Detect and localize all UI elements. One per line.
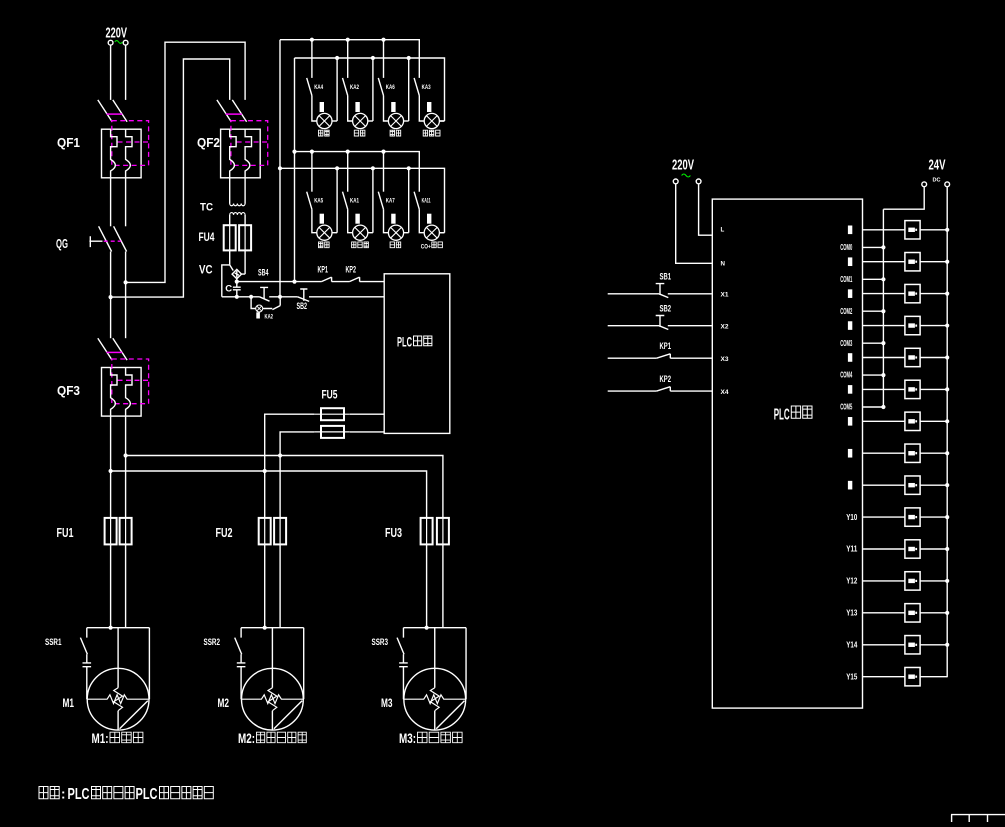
junction on M3 top line xyxy=(425,626,429,630)
junction row Y13 on 24V bus xyxy=(945,643,949,647)
relay KA7 inner mark xyxy=(908,451,915,455)
contact KP1 (left circuit) xyxy=(321,277,349,282)
svg-text:M3:: M3: xyxy=(399,731,416,746)
svg-text:KP2: KP2 xyxy=(660,374,672,385)
small mark above lamp KA6 xyxy=(391,102,395,112)
svg-text:KA7: KA7 xyxy=(386,199,395,205)
wire lamp KA3 to right riser xyxy=(439,120,444,122)
svg-text:QF2: QF2 xyxy=(197,135,220,150)
switch QG handle xyxy=(89,236,102,247)
relay KA5 box xyxy=(905,380,920,398)
svg-text:COM0: COM0 xyxy=(840,243,852,252)
PLC output row Y0 wire to relay xyxy=(863,229,948,231)
motor M3 middle feed wire xyxy=(434,628,436,730)
wire contact to lamp KA3 xyxy=(419,96,424,122)
PLC output row Y6 wire to relay xyxy=(863,420,948,422)
junction FU5/FU2-left on lower bus xyxy=(263,469,267,473)
junction row Y2 on 24V bus xyxy=(945,292,949,296)
relay KA11 inner mark xyxy=(908,579,915,583)
breaker QF3 contact blades xyxy=(98,338,127,360)
wire QF3 to FU1 pole2 xyxy=(125,416,127,518)
motor M2 vertical zigzag xyxy=(268,688,277,711)
PLC output pin mark row 8 xyxy=(848,481,852,490)
junction on M2 top line xyxy=(263,626,267,630)
note text bottom left xyxy=(39,787,59,799)
fuse FU3 element 1 xyxy=(421,518,433,545)
indicator lamp KA2 xyxy=(353,113,368,128)
pushbutton SB1 line (right section) xyxy=(608,293,713,295)
svg-text:SB2: SB2 xyxy=(297,301,308,311)
PLC COM5 wire to COM bus xyxy=(863,406,884,408)
svg-text:DC: DC xyxy=(933,178,941,184)
svg-text:Y11: Y11 xyxy=(846,545,858,554)
junction row Y6 on 24V bus xyxy=(945,419,949,423)
svg-text:PLC: PLC xyxy=(774,406,790,423)
wire fuse to M1 right xyxy=(125,544,127,627)
motor M1 vertical zigzag xyxy=(114,688,123,711)
junction row Y4 on 24V bus xyxy=(945,355,949,359)
motor M1 top line xyxy=(87,627,150,629)
breaker QF2 magenta link line xyxy=(226,113,242,115)
svg-text:KA5: KA5 xyxy=(314,199,323,205)
junction row Y12 on 24V bus xyxy=(945,611,949,615)
lamp branch contact wire KA1 xyxy=(347,152,349,192)
junction row Y9 on 24V bus xyxy=(945,515,949,519)
svg-text:KA6: KA6 xyxy=(386,85,395,91)
relay KA6 box xyxy=(905,412,920,430)
breaker QF3 magenta dashed box xyxy=(112,359,149,404)
svg-text:KA2: KA2 xyxy=(350,85,359,91)
wire TC secondary to FU4 xyxy=(230,215,245,225)
lamp row 1 lamp bus xyxy=(295,58,445,121)
breaker QF3 body box xyxy=(102,368,142,417)
svg-text:QF1: QF1 xyxy=(57,135,80,150)
svg-text:KP1: KP1 xyxy=(318,265,329,275)
relay KA2 box xyxy=(905,284,920,302)
svg-text:24V: 24V xyxy=(929,157,946,173)
fuse FU5 element 1 wires xyxy=(265,414,384,471)
pushbutton SB2 line (right section) xyxy=(608,325,713,327)
small mark above lamp KA3 xyxy=(427,102,431,112)
lamp caption row1 branch 4 xyxy=(423,130,440,136)
feeder vertical B (row buses to upper control line) xyxy=(294,58,296,282)
relay KA13 box xyxy=(905,636,920,654)
rectifier VC diamond xyxy=(232,269,241,278)
relay KA13 inner mark xyxy=(908,643,915,647)
svg-text:X1: X1 xyxy=(721,292,730,299)
wire lamp KA2 to right riser xyxy=(368,120,373,122)
svg-text:KA4: KA4 xyxy=(314,85,323,91)
wire QF1 to QG pole1 xyxy=(110,178,112,227)
svg-text:C: C xyxy=(225,284,232,295)
svg-text:COM5: COM5 xyxy=(840,403,852,412)
lamp branch contact wire KA5 xyxy=(311,152,313,192)
svg-text:PLC: PLC xyxy=(397,333,412,349)
motor M3 circle xyxy=(404,668,466,730)
fuse FU2 element 1 xyxy=(259,518,271,545)
motor M1 right wire xyxy=(148,628,150,700)
contact KA3 blade xyxy=(414,78,419,96)
motor M2 diameter line with resistor zigzag xyxy=(241,695,304,704)
indicator small mark xyxy=(256,312,260,318)
PLC output row Y12 wire to relay xyxy=(863,612,948,614)
svg-text:M1: M1 xyxy=(63,696,75,710)
wire fuse to M2 left xyxy=(264,544,266,627)
fuse FU5 element 2 wires xyxy=(280,432,384,456)
junction A on lower control line xyxy=(278,295,282,299)
contact SSR1 capacitor bars xyxy=(83,654,92,699)
lamp caption row2 branch 1 xyxy=(319,242,330,248)
svg-text:PLC: PLC xyxy=(136,786,158,803)
wire lamp KA5 to right riser xyxy=(332,232,337,234)
AC tilde mark (left 220V) xyxy=(115,41,123,44)
relay KA5 inner mark xyxy=(908,387,915,391)
svg-text:SB2: SB2 xyxy=(660,303,672,314)
motor M3 top line xyxy=(403,627,466,629)
svg-text:Y13: Y13 xyxy=(846,609,858,618)
power bus line lower (to FU2/FU3 left) xyxy=(111,471,427,518)
PLC output row Y8 wire to relay xyxy=(863,484,948,486)
lamp row 2 contact bus xyxy=(295,152,420,192)
PLC main unit box (left) xyxy=(384,274,450,434)
svg-text:SSR3: SSR3 xyxy=(372,637,389,647)
svg-text:FU5: FU5 xyxy=(322,390,338,402)
junction row Y0 on 24V bus xyxy=(945,228,949,232)
PLC output row Y7 wire to relay xyxy=(863,452,948,454)
PLC output pin mark row 0 xyxy=(848,226,852,235)
PLC output pin mark row 4 xyxy=(848,353,852,362)
wire 220V-L to PLC N pin xyxy=(676,184,713,263)
indicator lamp KA7 xyxy=(388,225,403,240)
svg-text:KA3: KA3 xyxy=(422,85,431,91)
PLC COM3 wire to COM bus xyxy=(863,342,884,344)
capacitor C body xyxy=(233,282,241,297)
fuse FU1 element 1 xyxy=(105,518,117,545)
relay KA10 inner mark xyxy=(908,547,915,551)
svg-text:KA1: KA1 xyxy=(350,199,359,205)
relay KA8 box xyxy=(905,476,920,494)
contact KA2 blade xyxy=(343,78,348,96)
breaker QF2 pole 1 thermal-magnetic element xyxy=(230,129,236,178)
relay KA12 box xyxy=(905,604,920,622)
contact SSR2 capacitor bars xyxy=(237,654,246,699)
PLC output row Y14 wire to relay xyxy=(863,676,948,678)
svg-text:CO+: CO+ xyxy=(421,244,431,251)
pushbutton SB1 plunger xyxy=(656,284,665,295)
fuse FU1 element 2 xyxy=(120,518,132,545)
PLC output pin mark row 7 xyxy=(848,449,852,458)
junction row Y7 on 24V bus xyxy=(945,451,949,455)
wire fuse to M3 left xyxy=(426,544,428,627)
PLC output pin mark row 5 xyxy=(848,385,852,394)
breaker QF2 body box xyxy=(221,129,261,178)
wire fuse to M1 left xyxy=(110,544,112,627)
relay KA3 inner mark xyxy=(908,323,915,327)
wire feeder pole2 to QF2 (outer loop) xyxy=(126,42,246,282)
svg-text:KA2: KA2 xyxy=(265,315,274,321)
wire contact to lamp KA4 xyxy=(312,96,317,122)
junction FU5/FU2-right on upper bus xyxy=(278,453,282,457)
motor M2 pump diagonal xyxy=(274,701,302,729)
switch QG magenta dashed link xyxy=(104,240,122,242)
pushbutton SB4 plunger xyxy=(260,287,268,298)
breaker QF2 magenta dashed mid line xyxy=(237,141,268,143)
junction A on row2 lamp bus xyxy=(278,166,282,170)
PLC COM1 wire to COM bus xyxy=(863,278,884,280)
lamp caption row1 branch 2 xyxy=(354,130,365,136)
lamp caption row1 branch 1 xyxy=(319,130,330,136)
title block table corner xyxy=(951,815,1005,822)
wire QF3 to FU1 pole1 xyxy=(110,416,112,518)
svg-text:FU4: FU4 xyxy=(199,232,215,244)
wire feeder pole1 to QF2 (inner loop) xyxy=(111,59,230,297)
pushbutton SB2 plunger (left circuit) xyxy=(300,289,307,301)
svg-text:M2: M2 xyxy=(218,696,230,710)
motor M3 diameter line with resistor zigzag xyxy=(403,695,466,704)
contact SSR1 blade xyxy=(80,628,87,655)
wire QF2 to TC primary xyxy=(230,178,245,204)
relay KA4 box xyxy=(905,348,920,366)
24V-R bus vertical xyxy=(946,187,948,678)
switch QG blades xyxy=(99,226,127,251)
wire 220V to QF1 pole1 xyxy=(110,45,112,100)
relay KA2 inner mark xyxy=(908,291,915,295)
motor M3 pump diagonal xyxy=(436,701,464,729)
svg-text:FU3: FU3 xyxy=(385,525,402,540)
relay KA7 box xyxy=(905,444,920,462)
PLC main unit box (right) xyxy=(712,199,862,708)
motor M1 diameter line with resistor zigzag xyxy=(87,695,150,704)
small mark above lamp KA11 xyxy=(427,214,431,224)
contact KP1 blade xyxy=(657,354,671,358)
contact SSR2 blade xyxy=(235,628,242,655)
wire lamp KA7 to right riser xyxy=(404,232,409,234)
pushbutton SB2 blade xyxy=(659,326,668,330)
PLC output row Y5 wire to relay xyxy=(863,388,948,390)
wire 24V-L to COM bus xyxy=(883,187,924,210)
svg-text:Y15: Y15 xyxy=(846,672,858,681)
indicator lamp KA11 xyxy=(424,225,439,240)
lamp row 2 lamp bus xyxy=(280,168,445,232)
wire contact to lamp KA5 xyxy=(312,209,317,232)
svg-text:Y12: Y12 xyxy=(846,577,858,586)
relay KA6 inner mark xyxy=(908,419,915,423)
wire fuse to M3 right xyxy=(442,544,444,627)
small mark above lamp KA5 xyxy=(320,214,324,224)
contact KA11 blade xyxy=(414,192,419,210)
contact SSR3 blade xyxy=(397,628,404,655)
lamp branch contact wire KA2 xyxy=(347,40,349,78)
breaker QF3 magenta link line xyxy=(107,351,123,353)
lamp branch contact wire KA4 xyxy=(311,40,313,78)
indicator lamp KA4 xyxy=(317,113,332,128)
PLC COM0 wire to COM bus xyxy=(863,246,884,248)
lamp caption row1 branch 3 xyxy=(390,130,401,136)
svg-text:FU2: FU2 xyxy=(216,525,233,540)
svg-text:VC: VC xyxy=(199,265,213,277)
PLC output pin mark row 2 xyxy=(848,289,852,298)
relay KA10 box xyxy=(905,540,920,558)
motor M3 right wire xyxy=(465,628,467,700)
PLC output row Y1 wire to relay xyxy=(863,261,948,263)
wire contact to lamp KA7 xyxy=(384,209,389,232)
terminal circle R (24V) xyxy=(945,182,950,187)
relay KA14 inner mark xyxy=(908,674,915,678)
COM bus vertical xyxy=(882,209,884,407)
breaker QF1 pole 2 thermal-magnetic element xyxy=(126,129,132,178)
PLC output pin mark row 3 xyxy=(848,321,852,330)
contact KP1 line (right section) xyxy=(608,357,713,359)
wire QF1 to QG pole2 xyxy=(125,178,127,227)
terminal circle R (left 220V) xyxy=(123,40,128,45)
svg-text:SB1: SB1 xyxy=(660,272,672,283)
breaker QF3 pole 1 thermal-magnetic element xyxy=(111,368,117,417)
breaker QF2 pole 2 thermal-magnetic element xyxy=(245,129,251,178)
indicator lamp branch wire xyxy=(251,297,256,309)
svg-text:FU1: FU1 xyxy=(57,525,74,540)
wire QG to QF3 pole1 xyxy=(110,252,112,339)
small mark above lamp KA4 xyxy=(320,102,324,112)
junction row Y10 on 24V bus xyxy=(945,547,949,551)
junction C- on lower control line xyxy=(235,295,239,299)
relay KA0 inner mark xyxy=(908,228,915,232)
PLC output row Y4 wire to relay xyxy=(863,357,948,359)
feeder vertical A (row buses to lower control line) xyxy=(279,40,281,297)
svg-text:SSR1: SSR1 xyxy=(45,637,62,647)
lamp caption row2 branch 3 xyxy=(390,242,401,248)
svg-text:SSR2: SSR2 xyxy=(204,637,221,647)
motor M1 middle feed wire xyxy=(117,628,119,730)
wire QG to QF3 pole2 xyxy=(125,252,127,339)
PLC output pin mark row 1 xyxy=(848,257,852,266)
relay KA3 box xyxy=(905,316,920,334)
fuse FU4 element 2 xyxy=(239,225,251,250)
svg-text:Y10: Y10 xyxy=(846,513,858,522)
wire contact to lamp KA11 xyxy=(419,209,424,232)
indicator lamp HL xyxy=(256,305,263,312)
breaker QF1 magenta link line xyxy=(107,113,123,115)
breaker QF3 pole 2 thermal-magnetic element xyxy=(126,368,132,417)
wire contact to lamp KA1 xyxy=(348,209,353,232)
fuse FU5 element 1 xyxy=(321,408,344,420)
pushbutton SB1 blade xyxy=(659,294,668,298)
indicator lamp KA1 xyxy=(353,225,368,240)
breaker QF2 magenta dashed box xyxy=(231,121,268,166)
svg-text:N: N xyxy=(721,261,726,268)
motor M1 pump diagonal xyxy=(120,701,148,729)
svg-text:COM3: COM3 xyxy=(840,339,852,348)
PLC output row Y11 wire to relay xyxy=(863,580,948,582)
svg-text:220V: 220V xyxy=(106,26,128,42)
transformer TC primary winding xyxy=(230,204,245,206)
contact KA7 blade xyxy=(378,192,383,210)
svg-text::: : xyxy=(61,787,66,802)
svg-text:X2: X2 xyxy=(721,324,730,331)
fuse FU2 element 2 xyxy=(274,518,286,545)
svg-text:Y14: Y14 xyxy=(846,640,858,649)
terminal circle R (right 220V) xyxy=(696,179,701,184)
small mark above lamp KA1 xyxy=(355,214,359,224)
junction QG pole1 to QF2 feeder xyxy=(109,295,113,299)
breaker QF1 magenta dashed box xyxy=(112,121,149,166)
relay KA9 box xyxy=(905,508,920,526)
contact SSR3 capacitor bars xyxy=(399,654,408,699)
indicator lamp KA5 xyxy=(317,225,332,240)
wire lamp KA11 to right riser xyxy=(439,232,444,234)
svg-text:M2:: M2: xyxy=(238,731,255,746)
svg-text:M1:: M1: xyxy=(92,731,109,746)
svg-text:KA11: KA11 xyxy=(422,199,431,205)
junction vertical-B on upper control line xyxy=(292,280,296,284)
contact KP2 line (right section) xyxy=(608,390,713,392)
svg-text:QF3: QF3 xyxy=(57,383,80,398)
junction row Y5 on 24V bus xyxy=(945,387,949,391)
svg-text:TC: TC xyxy=(200,202,213,214)
motor M2 top line xyxy=(241,627,304,629)
PLC output row Y10 wire to relay xyxy=(863,548,948,550)
motor M2 right wire xyxy=(303,628,305,700)
power bus line upper (to FU2/FU3 right) xyxy=(126,456,443,518)
small mark above lamp KA7 xyxy=(391,214,395,224)
wire FU4 to VC xyxy=(230,250,245,274)
contact KA5 blade xyxy=(307,192,312,210)
contact KA1 blade xyxy=(343,192,348,210)
PLC output row Y9 wire to relay xyxy=(863,516,948,518)
svg-text:X4: X4 xyxy=(721,389,730,396)
PLC output row Y13 wire to relay xyxy=(863,644,948,646)
svg-text:QG: QG xyxy=(56,236,68,251)
transformer TC secondary winding xyxy=(230,213,245,215)
PLC COM4 wire to COM bus xyxy=(863,374,884,376)
rectifier VC left wrap wire xyxy=(222,265,230,297)
lamp caption row2 branch 2 xyxy=(352,242,369,248)
motor M2 middle feed wire xyxy=(271,628,273,730)
junction QG pole2 to QF2 feeder xyxy=(124,280,128,284)
pushbutton SB2 plunger xyxy=(656,316,665,327)
fuse FU5 element 2 xyxy=(321,426,344,438)
junction row Y11 on 24V bus xyxy=(945,579,949,583)
AC tilde mark (right 220V) xyxy=(682,174,691,177)
indicator lamp KA3 xyxy=(424,113,439,128)
breaker QF1 body box xyxy=(102,129,142,178)
terminal circle L (left 220V) xyxy=(108,40,113,45)
breaker QF3 magenta dashed mid line xyxy=(118,379,149,381)
svg-text:M3: M3 xyxy=(381,696,393,710)
wire lamp KA1 to right riser xyxy=(368,232,373,234)
fuse FU4 element 1 xyxy=(224,225,236,250)
breaker QF1 magenta dashed mid line xyxy=(118,141,149,143)
svg-text:KP1: KP1 xyxy=(660,341,672,352)
breaker QF2 contact blades xyxy=(217,100,247,122)
pushbutton SB2 blade (left circuit) xyxy=(298,297,384,302)
motor M1 circle xyxy=(87,668,149,730)
contact KA4 blade xyxy=(307,78,312,96)
svg-text:X3: X3 xyxy=(721,356,730,363)
lamp branch contact wire KA6 xyxy=(383,40,385,78)
wire VC to control bus xyxy=(236,279,238,282)
wire contact to lamp KA2 xyxy=(348,96,353,122)
svg-text:PLC: PLC xyxy=(68,786,90,803)
contact KA6 blade xyxy=(378,78,383,96)
junction on M1 top line xyxy=(109,626,113,630)
junction row Y8 on 24V bus xyxy=(945,483,949,487)
junction lamp branch on lower control line xyxy=(249,295,253,299)
upper control line VC+ to KP1 xyxy=(237,281,322,283)
PLC output pin mark row 6 xyxy=(848,417,852,426)
svg-text:COM4: COM4 xyxy=(840,371,852,380)
svg-text:L: L xyxy=(721,227,725,234)
svg-text:SB4: SB4 xyxy=(258,268,269,278)
